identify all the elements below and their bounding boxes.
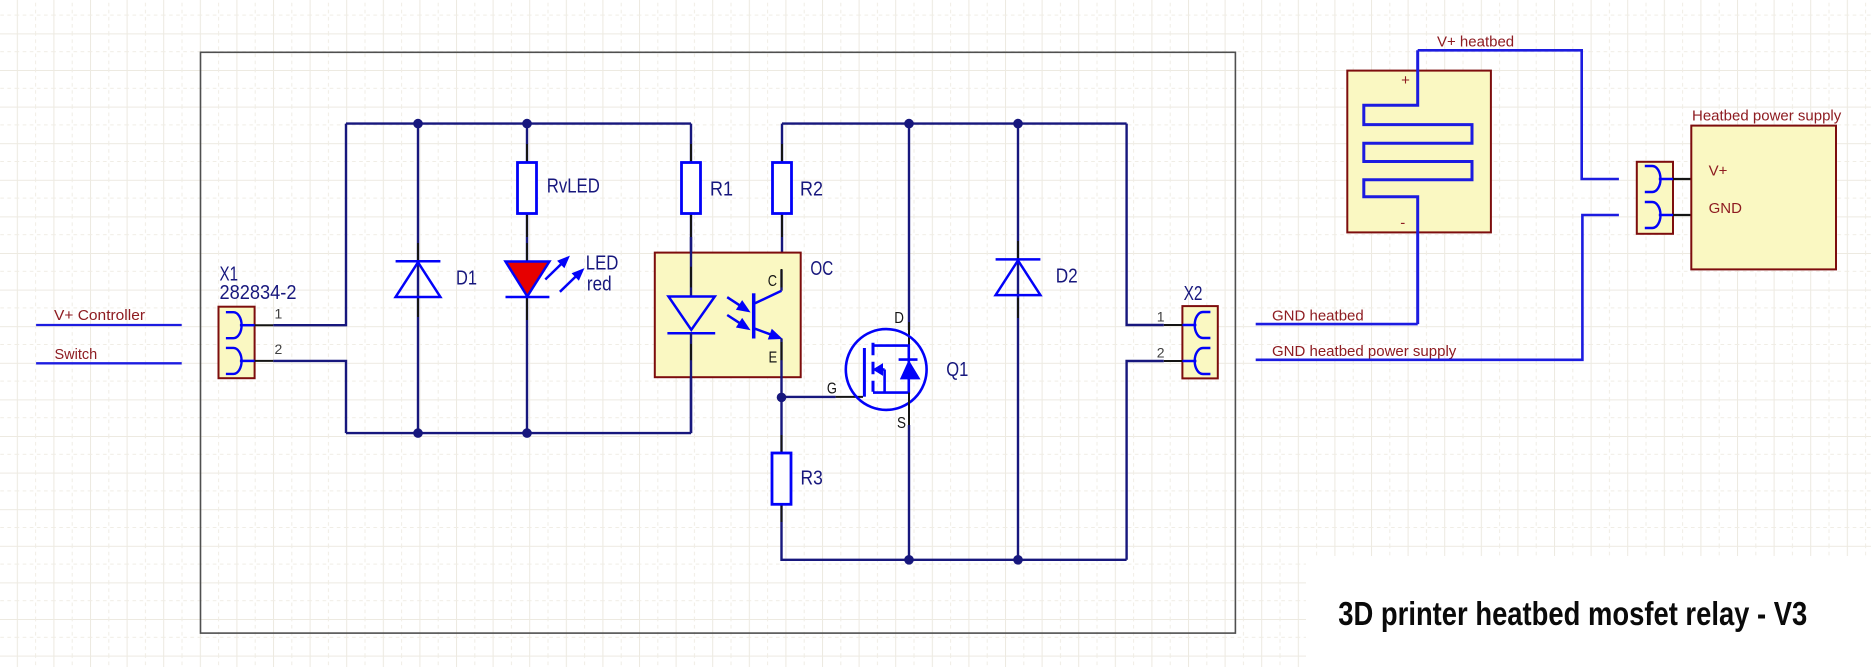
heatbed element body <box>1347 71 1491 233</box>
svg-text:D1: D1 <box>456 267 477 290</box>
junction dot bottom rail / LED <box>522 428 532 438</box>
wire V+ heatbed <box>1418 50 1619 179</box>
wire top rail to X2 pin1 <box>1127 124 1164 325</box>
wire gate node to MOSFET gate <box>782 396 836 398</box>
svg-text:V+ heatbed: V+ heatbed <box>1437 33 1514 50</box>
connector X2 pin 1 contact <box>1195 312 1211 338</box>
wire D2 branch <box>1017 124 1019 560</box>
resistor R3 <box>772 453 791 504</box>
svg-text:S: S <box>897 415 906 432</box>
drain pin stub <box>908 322 910 346</box>
transistor Q1 <box>846 329 927 410</box>
wire X2 pin2 to bottom rail <box>1127 361 1164 560</box>
svg-text:R1: R1 <box>710 178 733 201</box>
svg-text:R2: R2 <box>800 178 823 201</box>
pin stubs of RvLED <box>526 144 528 163</box>
wire emitter vertical to gate node <box>780 339 782 398</box>
wire source to bottom rail <box>908 425 910 560</box>
wire drain from top rail <box>908 124 910 330</box>
opto LED cathode pin stub <box>690 344 692 360</box>
wire X1 pin1 to top rail <box>273 124 346 326</box>
opto LED diode <box>669 297 715 330</box>
svg-text:LED: LED <box>586 251 619 274</box>
LED light arrow 2 <box>560 277 576 292</box>
svg-text:2: 2 <box>1157 344 1165 360</box>
wire GND heatbed <box>1256 323 1418 326</box>
svg-text:GND heatbed: GND heatbed <box>1272 308 1364 325</box>
junction dot top rail / D1 <box>413 119 423 129</box>
LED LED1 red triangle <box>506 262 550 297</box>
svg-text:C: C <box>768 273 777 290</box>
svg-text:2: 2 <box>275 341 283 357</box>
power connector pin 2 contact <box>1645 202 1661 228</box>
pin 2 stub of X2 <box>1164 360 1183 362</box>
heatbed heater meander <box>1364 50 1472 324</box>
svg-text:Q1: Q1 <box>946 358 968 381</box>
svg-text:282834-2: 282834-2 <box>220 281 297 304</box>
junction dot top rail / Q1 drain <box>904 119 914 129</box>
LED light arrow 1 <box>545 264 561 279</box>
svg-text:E: E <box>769 349 778 366</box>
heatbed power supply body <box>1691 126 1836 270</box>
pin stub GND <box>1673 214 1691 216</box>
svg-text:+: + <box>1401 72 1410 89</box>
power connector body <box>1637 162 1673 234</box>
svg-text:Heatbed power supply: Heatbed power supply <box>1692 108 1842 125</box>
resistor R1 <box>682 163 701 214</box>
pin stubs of R3 <box>781 435 783 453</box>
resistor R2 <box>773 163 792 214</box>
connector X1 pin 1 contact <box>226 312 242 338</box>
svg-text:1: 1 <box>275 306 283 322</box>
diode D2 <box>996 258 1041 261</box>
pin 1 stub of X2 <box>1164 324 1183 326</box>
resistor RvLED <box>518 163 537 214</box>
source pin stub <box>908 393 910 425</box>
opto phototransistor <box>752 293 756 338</box>
wire RvLED / LED branch <box>526 124 528 434</box>
svg-text:3D printer heatbed mosfet rela: 3D printer heatbed mosfet relay - V3 <box>1338 595 1807 632</box>
svg-text:R3: R3 <box>801 466 823 489</box>
wire R1 / opto branch <box>690 124 692 434</box>
wire left bottom rail <box>346 432 691 434</box>
wire GND heatbed power supply <box>1256 215 1619 360</box>
svg-text:G: G <box>827 381 837 398</box>
junction dot gate node <box>777 393 787 403</box>
opto collector pin stub <box>781 269 783 287</box>
wire R2 to optocoupler collector <box>781 214 783 271</box>
wire R2 branch from rail <box>781 124 783 163</box>
Q1 body diode <box>899 358 918 361</box>
svg-text:1: 1 <box>1157 308 1165 324</box>
junction dot top rail / RvLED <box>522 119 532 129</box>
pin stubs of R2 <box>781 144 783 163</box>
svg-text:X2: X2 <box>1184 282 1203 305</box>
connector X2 body <box>1182 306 1217 378</box>
svg-text:OC: OC <box>810 257 833 280</box>
svg-text:V+ Controller: V+ Controller <box>54 308 145 324</box>
wire X1 pin2 to bottom rail <box>273 361 346 433</box>
optocoupler OC body <box>655 253 801 378</box>
Q1 body arrow head <box>874 364 883 375</box>
pin stubs of LED <box>526 243 528 262</box>
pin stubs of R1 <box>690 144 692 163</box>
wire V+ Controller stub <box>36 324 182 326</box>
pin 1 stub of X1 <box>255 324 274 326</box>
svg-text:RvLED: RvLED <box>547 174 600 197</box>
svg-text:GND heatbed power supply: GND heatbed power supply <box>1272 343 1457 360</box>
wire Switch stub <box>36 362 182 364</box>
svg-text:D2: D2 <box>1056 265 1078 288</box>
svg-text:D: D <box>894 310 904 327</box>
pin stubs of D2 <box>1017 241 1019 259</box>
junction dot bottom rail / D1 <box>413 428 423 438</box>
opto emitter pin stub <box>781 342 783 360</box>
junction dot top rail / D2 <box>1013 119 1023 129</box>
connector X1 body <box>219 307 255 379</box>
svg-text:V+: V+ <box>1709 163 1728 180</box>
pin 2 stub of X1 <box>255 360 274 362</box>
svg-text:red: red <box>587 273 612 296</box>
gate pin stub of Q1 <box>836 396 863 398</box>
wire collector vertical <box>780 270 782 291</box>
connector X1 pin 2 contact <box>226 348 242 374</box>
opto light arrow 1 <box>727 297 739 305</box>
opto light arrow 2 <box>727 315 739 323</box>
junction dot bottom rail / D2 <box>1013 555 1023 565</box>
diode D1 <box>396 260 441 263</box>
wire top rail right section <box>782 122 1127 124</box>
svg-text:GND: GND <box>1709 200 1743 217</box>
wire opto LED cathode to bottom rail <box>690 333 692 433</box>
wire D1 branch <box>417 124 419 434</box>
pin stubs of D1 <box>417 243 419 261</box>
wire R3 to bottom rail <box>782 504 1127 560</box>
opto LED anode pin stub <box>690 267 692 288</box>
wire R1 to opto LED anode <box>690 237 692 297</box>
connector X2 pin 2 contact <box>1195 348 1211 374</box>
power connector pin 1 contact <box>1645 166 1661 192</box>
svg-text:-: - <box>1400 215 1405 232</box>
wire gate node down to R3 <box>780 397 782 453</box>
junction dot bottom rail / Q1 source <box>904 555 914 565</box>
svg-text:Switch: Switch <box>55 347 98 363</box>
pin stub V+ <box>1673 178 1691 180</box>
LED cathode bar <box>506 296 550 299</box>
wire left top rail <box>346 122 691 124</box>
